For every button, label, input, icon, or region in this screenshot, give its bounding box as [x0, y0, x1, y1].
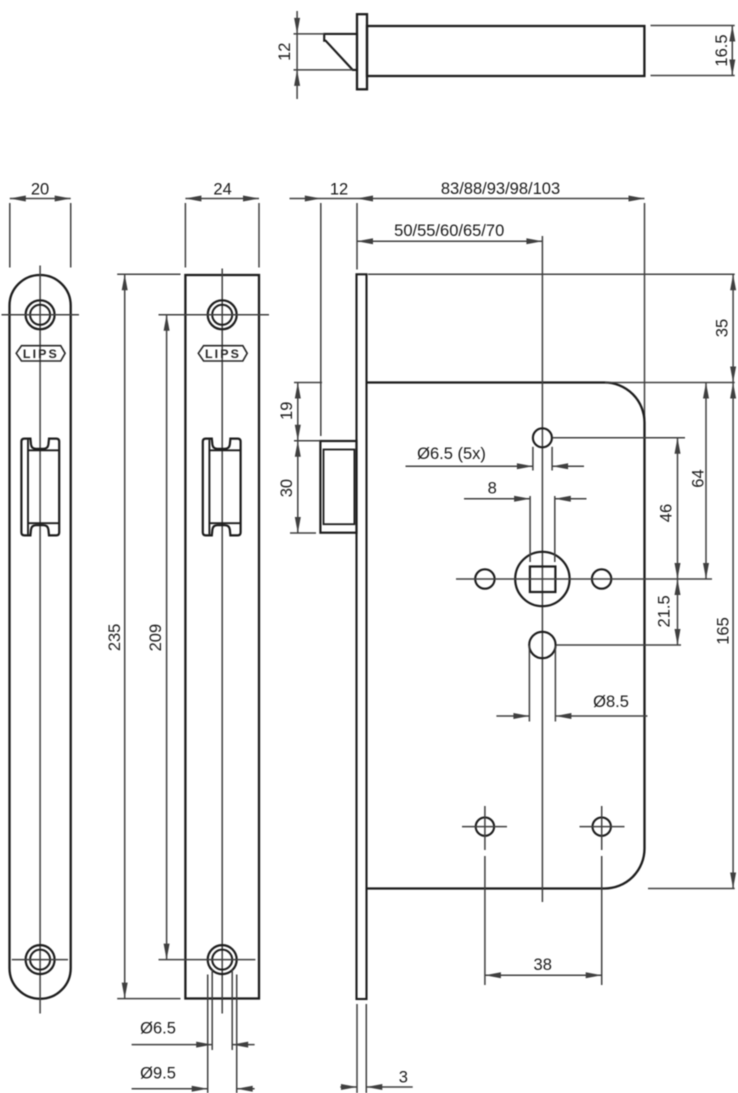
case bottom hole (8.5) [529, 632, 555, 658]
case vertical centerline [541, 236, 543, 902]
dimension 20 (left faceplate width) [10, 198, 71, 200]
svg-text:19: 19 [278, 402, 296, 420]
dimension diameter 6.5 (5x) label [532, 447, 534, 471]
dimension 3 (strip thickness) [356, 1004, 358, 1093]
latch bolt body (side view) [367, 26, 644, 76]
left faceplate vertical centerline [39, 266, 41, 1014]
dimension 21.5 (spindle to bottom hole) [677, 579, 679, 645]
middle bottom hole horizontal centerline [159, 959, 256, 961]
svg-text:21.5: 21.5 [656, 595, 674, 627]
dimension 19 (top to latch) [294, 382, 322, 384]
svg-text:38: 38 [534, 956, 552, 974]
spindle horizontal centerline [456, 578, 712, 580]
dimension 24 (middle faceplate width) [185, 198, 259, 200]
dimension 50/55/60/65/70 (backset) [357, 240, 542, 242]
strip top extension line [368, 273, 735, 275]
middle top hole horizontal centerline [159, 314, 270, 316]
spindle square hole [530, 567, 556, 593]
svg-text:LIPS: LIPS [205, 347, 241, 361]
bottom hole leader line [556, 644, 681, 646]
faceplate cross-section (side view) [357, 14, 367, 89]
dimension 83/88/93/98/103 (case depth) [357, 198, 645, 200]
svg-text:83/88/93/98/103: 83/88/93/98/103 [441, 180, 560, 198]
case bottom extension line [648, 888, 735, 890]
dimension 64 (case top to spindle) [705, 383, 707, 580]
svg-text:8: 8 [488, 480, 497, 498]
dimension 16.5 (bolt body height) [651, 25, 735, 27]
dimension 235 (faceplate length) [117, 273, 180, 275]
left faceplate outline (rounded ends) [10, 275, 71, 999]
middle faceplate bottom screw hole [208, 945, 237, 974]
svg-text:46: 46 [658, 504, 676, 522]
dimension 12 (latch height, side view) [294, 33, 325, 35]
lower-right screw hole [593, 817, 611, 835]
latch bolt wedge head [324, 34, 357, 70]
svg-text:50/55/60/65/70: 50/55/60/65/70 [394, 222, 504, 240]
svg-text:20: 20 [31, 180, 49, 198]
case top hole [533, 428, 552, 447]
spindle hub circle [515, 552, 569, 606]
left faceplate bottom screw hole [26, 945, 55, 974]
left faceplate latch cutout [21, 439, 59, 536]
left small hole [475, 569, 494, 588]
lower-left screw hole [476, 817, 494, 835]
svg-text:16.5: 16.5 [713, 34, 731, 66]
svg-text:LIPS: LIPS [23, 347, 59, 361]
dimension 12 (latch protrusion) [290, 198, 358, 200]
right small hole [592, 569, 611, 588]
top hole leader line [553, 437, 686, 439]
svg-text:Ø8.5: Ø8.5 [593, 693, 629, 711]
dimension 30 (latch height) [290, 532, 316, 534]
dimension 46 (top hole to spindle) [677, 438, 679, 579]
latch bolt front view [320, 441, 356, 533]
svg-text:35: 35 [713, 319, 731, 337]
middle faceplate latch cutout [203, 439, 241, 536]
lock case outline [367, 383, 645, 889]
dimension diameter 9.5 (countersink) [207, 975, 209, 1093]
svg-text:165: 165 [715, 617, 733, 645]
left top hole horizontal centerline [2, 314, 80, 316]
faceplate strip (front view) [357, 274, 367, 999]
dimension 38 (screw hole spacing) [484, 856, 486, 985]
dimension 209 (hole spacing) [166, 315, 168, 960]
middle LIPS logo hexagon [198, 346, 247, 361]
svg-text:Ø6.5 (5x): Ø6.5 (5x) [417, 445, 486, 463]
left LIPS logo hexagon [16, 346, 65, 361]
svg-text:Ø6.5: Ø6.5 [140, 1020, 176, 1038]
svg-text:24: 24 [213, 180, 231, 198]
middle faceplate vertical centerline [221, 269, 223, 1014]
svg-text:209: 209 [147, 624, 165, 652]
dimension diameter 8.5 [528, 646, 530, 722]
dimension 8 (square spindle) [529, 496, 531, 562]
svg-text:12: 12 [330, 180, 348, 198]
svg-text:3: 3 [399, 1069, 408, 1087]
svg-text:12: 12 [276, 43, 294, 61]
case top extension line [605, 382, 735, 384]
dimension 35 (strip top to case top) [732, 274, 734, 382]
svg-text:Ø9.5: Ø9.5 [140, 1065, 176, 1083]
middle faceplate outline [185, 275, 259, 999]
svg-text:64: 64 [690, 469, 708, 487]
svg-text:30: 30 [278, 479, 296, 497]
dimension 165 (case height) [732, 383, 734, 889]
dimension diameter 6.5 (hole) [211, 970, 213, 1050]
middle faceplate top screw hole [208, 300, 237, 329]
svg-text:235: 235 [106, 624, 124, 652]
left bottom hole horizontal centerline [12, 959, 68, 961]
left faceplate top screw hole [26, 300, 55, 329]
